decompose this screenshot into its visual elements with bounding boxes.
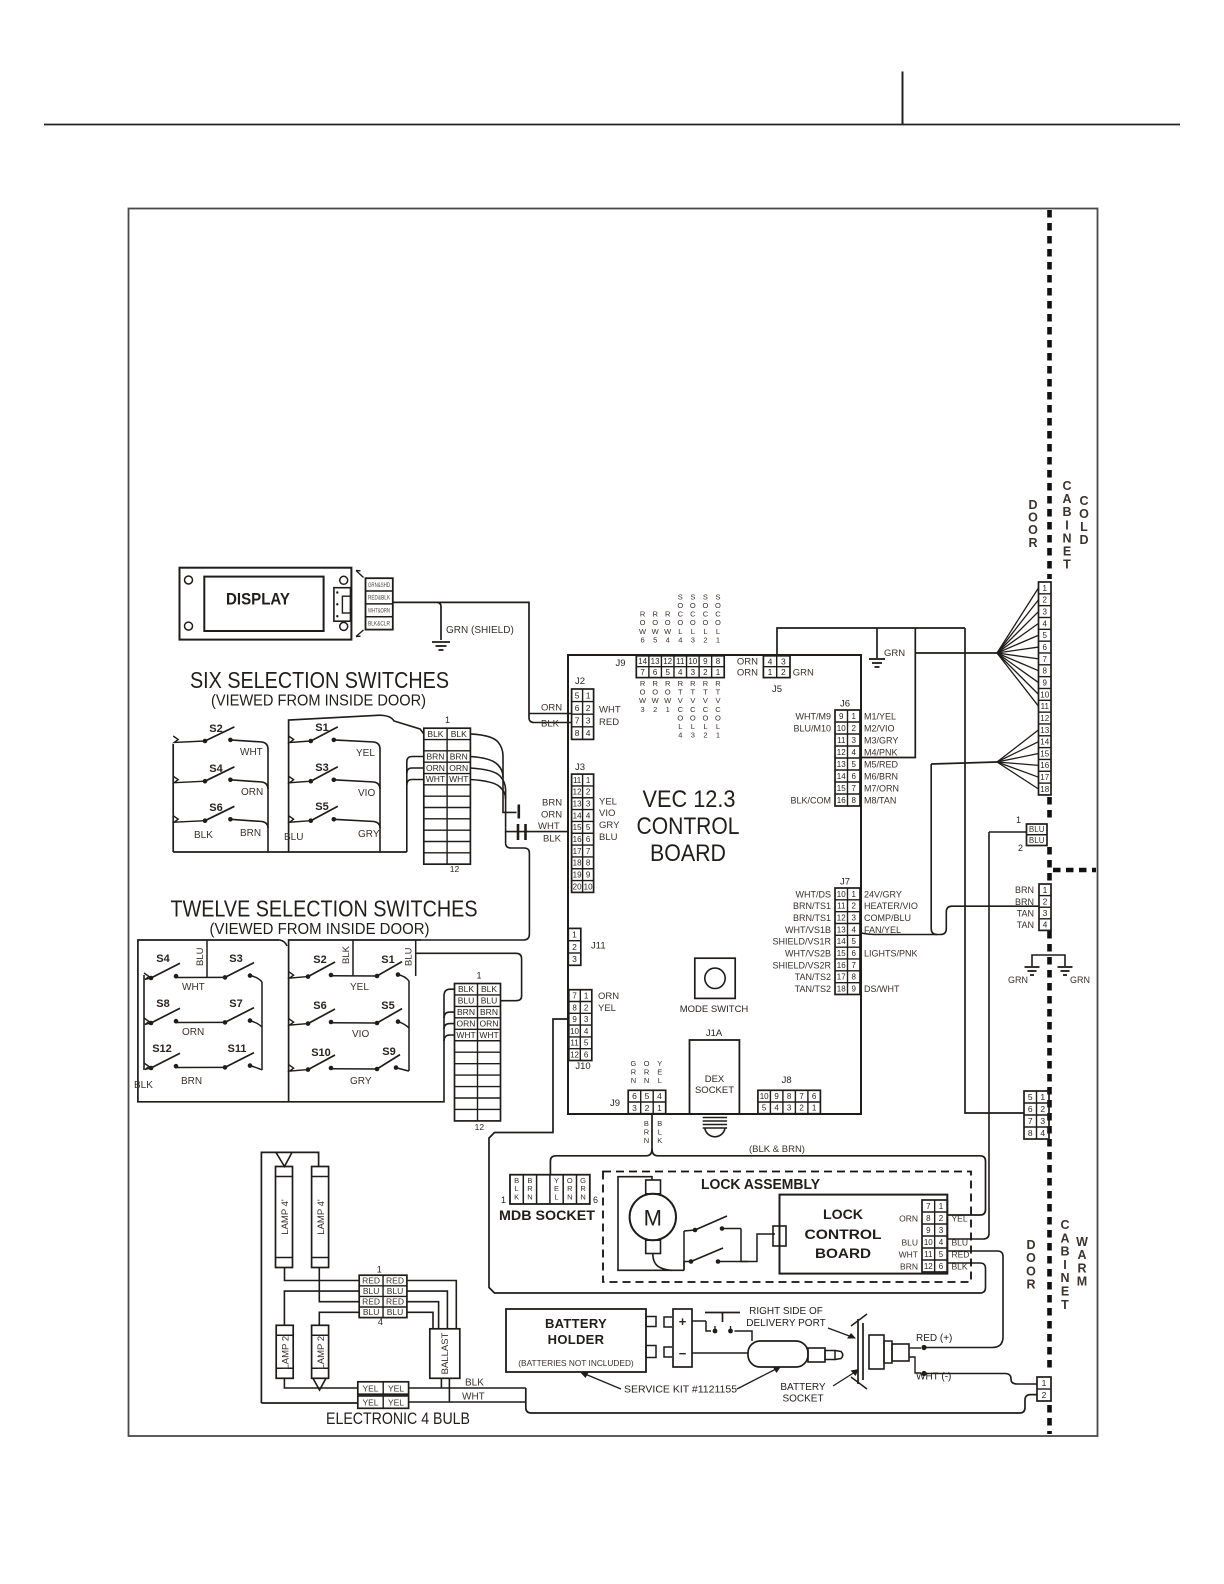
svg-text:1: 1 <box>501 1195 506 1205</box>
svg-text:E: E <box>1063 545 1071 559</box>
svg-text:3: 3 <box>852 736 857 745</box>
wire lamp1 to RED1 <box>285 1268 360 1281</box>
svg-text:L: L <box>658 1076 662 1085</box>
svg-text:2: 2 <box>703 731 707 740</box>
wire to fan-out 1 <box>915 652 997 654</box>
svg-text:1: 1 <box>812 1104 817 1113</box>
switch S5 <box>375 1000 402 1025</box>
svg-text:1: 1 <box>1043 885 1048 895</box>
svg-text:S2: S2 <box>313 954 326 966</box>
svg-text:J9: J9 <box>615 658 625 669</box>
svg-text:14: 14 <box>638 657 647 666</box>
svg-text:WHT: WHT <box>899 1249 918 1259</box>
svg-text:C: C <box>1079 494 1088 508</box>
svg-text:7: 7 <box>640 668 645 677</box>
svg-text:GRY: GRY <box>350 1076 372 1087</box>
svg-text:15: 15 <box>837 784 846 793</box>
svg-text:16: 16 <box>837 961 846 970</box>
svg-text:4: 4 <box>678 731 682 740</box>
splice connector half <box>517 805 520 819</box>
wire BLU2 to ballast <box>407 1291 448 1329</box>
svg-text:WHT: WHT <box>182 982 205 993</box>
svg-text:3: 3 <box>939 1226 944 1235</box>
svg-text:14: 14 <box>837 772 846 781</box>
svg-text:3: 3 <box>586 800 591 809</box>
svg-text:S10: S10 <box>311 1047 331 1059</box>
connector evaporator 2-pin BLU <box>1027 824 1048 846</box>
svg-text:BLU: BLU <box>481 996 498 1006</box>
ground shield <box>432 641 450 643</box>
svg-text:3: 3 <box>691 668 696 677</box>
wire BLU riser to lock board <box>948 832 990 1239</box>
svg-text:4: 4 <box>378 1317 383 1327</box>
display mounting hole <box>185 622 193 630</box>
lock control board <box>780 1195 948 1274</box>
display mounting hole <box>340 622 348 630</box>
wire ballast to BLK run <box>440 1378 442 1388</box>
svg-text:2: 2 <box>572 942 577 952</box>
switch S6 <box>203 802 235 823</box>
terminal WHT dot <box>921 1371 926 1376</box>
svg-text:TAN/TS2: TAN/TS2 <box>795 972 831 982</box>
svg-text:T: T <box>1061 1298 1069 1312</box>
svg-text:RED: RED <box>362 1297 380 1307</box>
svg-text:A: A <box>1077 1248 1086 1262</box>
svg-text:8: 8 <box>926 1214 931 1223</box>
svg-text:M5/RED: M5/RED <box>864 759 899 769</box>
svg-text:12: 12 <box>1040 714 1049 723</box>
svg-text:4: 4 <box>586 811 591 820</box>
svg-text:13: 13 <box>573 800 582 809</box>
svg-text:1: 1 <box>768 667 773 677</box>
svg-text:S12: S12 <box>152 1043 172 1055</box>
switch S5 <box>309 801 338 823</box>
display window <box>204 577 323 631</box>
svg-text:BLU: BLU <box>952 1237 969 1247</box>
wire BLU feed <box>989 831 1027 833</box>
svg-text:A: A <box>1060 1231 1069 1245</box>
svg-text:15: 15 <box>573 823 582 832</box>
svg-text:3: 3 <box>586 716 591 726</box>
svg-text:10: 10 <box>837 724 846 733</box>
svg-text:3: 3 <box>787 1104 792 1113</box>
svg-text:7: 7 <box>852 784 857 793</box>
port jack nut <box>869 1335 884 1369</box>
svg-text:VIO: VIO <box>358 788 375 799</box>
wire GRN ground drop <box>876 628 878 658</box>
wire riser to door harness <box>965 628 1024 1113</box>
wire S2/S4/S6 outputs to bottom bus <box>230 740 268 852</box>
svg-text:15: 15 <box>837 949 846 958</box>
svg-text:2: 2 <box>703 635 707 644</box>
svg-text:WHT: WHT <box>462 1392 485 1403</box>
svg-text:8: 8 <box>575 728 580 738</box>
svg-text:9: 9 <box>586 871 591 880</box>
svg-text:BLK: BLK <box>481 984 497 994</box>
svg-text:BLU: BLU <box>363 1307 380 1317</box>
svg-text:RED: RED <box>386 1297 404 1307</box>
battery socket plug <box>748 1341 808 1367</box>
wire ORN to J2 <box>529 713 571 715</box>
svg-text:J11: J11 <box>591 941 606 952</box>
svg-text:+: + <box>679 1314 687 1329</box>
splice connector pair <box>517 824 520 840</box>
svg-text:GRY: GRY <box>599 820 620 831</box>
svg-text:VEC 12.3: VEC 12.3 <box>643 786 736 813</box>
svg-text:WHT: WHT <box>456 1030 475 1040</box>
lamp LAMP 4' <box>276 1167 293 1268</box>
switch S7 <box>223 998 254 1025</box>
svg-text:E: E <box>1061 1285 1069 1299</box>
svg-text:4: 4 <box>678 635 682 644</box>
svg-text:DELIVERY PORT: DELIVERY PORT <box>746 1318 825 1329</box>
svg-text:6: 6 <box>586 835 591 844</box>
svg-text:BLK&CLR: BLK&CLR <box>368 621 391 627</box>
svg-text:(VIEWED FROM INSIDE DOOR): (VIEWED FROM INSIDE DOOR) <box>210 921 430 938</box>
svg-text:TWELVE SELECTION SWITCHES: TWELVE SELECTION SWITCHES <box>171 896 478 922</box>
svg-text:BLU: BLU <box>458 996 475 1006</box>
svg-text:8: 8 <box>1043 667 1048 676</box>
wire jack to RED terminal <box>909 1347 921 1349</box>
svg-text:6: 6 <box>1028 1104 1033 1114</box>
svg-text:14: 14 <box>573 811 582 820</box>
wire J9 pair to MDB and lock <box>651 1114 653 1149</box>
wire bus stub BLK <box>352 940 354 976</box>
svg-text:5: 5 <box>1043 631 1048 640</box>
svg-text:MDB SOCKET: MDB SOCKET <box>499 1207 595 1223</box>
svg-text:10: 10 <box>688 657 697 666</box>
wire S10-S9 link <box>331 1068 377 1070</box>
svg-text:5: 5 <box>852 937 857 946</box>
svg-text:BRN: BRN <box>181 1076 202 1087</box>
delivery port panel <box>857 1319 859 1384</box>
svg-text:5: 5 <box>1028 1092 1033 1102</box>
wire top feed to strip row 1 <box>380 715 424 734</box>
svg-text:N: N <box>527 1192 532 1201</box>
svg-text:9: 9 <box>926 1226 931 1235</box>
svg-text:S1: S1 <box>315 722 328 734</box>
svg-text:7: 7 <box>572 991 577 1000</box>
svg-text:BLK: BLK <box>134 1080 153 1091</box>
svg-text:6: 6 <box>852 772 857 781</box>
svg-text:S7: S7 <box>229 998 242 1010</box>
svg-text:LOCK: LOCK <box>823 1207 863 1222</box>
svg-text:4: 4 <box>1040 1128 1045 1138</box>
svg-text:LOCK ASSEMBLY: LOCK ASSEMBLY <box>701 1177 820 1193</box>
svg-text:S9: S9 <box>382 1046 395 1058</box>
wire strip exits right rows 1,3 to splice A <box>470 734 503 808</box>
svg-text:GRN (SHIELD): GRN (SHIELD) <box>446 625 514 636</box>
svg-text:LAMP 2': LAMP 2' <box>281 1334 292 1370</box>
svg-text:9: 9 <box>572 1015 577 1024</box>
lamp LAMP 2' <box>312 1325 329 1378</box>
wire S1/S3/S5 outputs to bottom bus <box>334 740 380 852</box>
svg-text:RED&BLK: RED&BLK <box>368 596 390 602</box>
svg-text:3: 3 <box>781 656 786 666</box>
svg-text:8: 8 <box>1028 1128 1033 1138</box>
svg-text:2: 2 <box>1040 1104 1045 1114</box>
wire lamp4 V to yel1 <box>313 1378 326 1390</box>
svg-text:BLK: BLK <box>341 945 352 964</box>
svg-text:BLK: BLK <box>952 1261 968 1271</box>
svg-text:TAN: TAN <box>1017 908 1034 918</box>
svg-text:WHT&ORN: WHT&ORN <box>368 609 390 615</box>
svg-text:T: T <box>1063 558 1071 572</box>
twelve-switch left group frame <box>138 940 421 1102</box>
battery holder tab <box>646 1317 656 1327</box>
svg-text:BLU: BLU <box>363 1286 380 1296</box>
svg-text:17: 17 <box>573 847 582 856</box>
wire fan-out to pins 1-11 <box>997 588 1039 653</box>
wire display cable to control board <box>393 602 529 717</box>
wire right-group riser S3 column <box>261 982 263 1070</box>
svg-text:8: 8 <box>852 796 857 805</box>
twelve-switch left bus <box>143 975 145 1070</box>
svg-text:BLU: BLU <box>599 832 618 843</box>
svg-text:1: 1 <box>666 705 670 714</box>
svg-text:12: 12 <box>663 657 672 666</box>
svg-text:5: 5 <box>575 690 580 700</box>
lock switch a <box>683 1231 685 1270</box>
wire bus taps left trio <box>173 736 205 743</box>
wire yel2 to left loop <box>261 1402 357 1404</box>
wire S2 feed zig <box>289 972 308 979</box>
wire motor group enclosure <box>861 628 915 758</box>
svg-text:8: 8 <box>787 1092 792 1101</box>
svg-text:1: 1 <box>1016 815 1021 825</box>
svg-text:ORN: ORN <box>737 657 758 668</box>
svg-text:5: 5 <box>852 760 857 769</box>
svg-text:LAMP 2': LAMP 2' <box>316 1334 327 1370</box>
svg-text:4: 4 <box>678 668 683 677</box>
svg-text:M: M <box>1077 1275 1087 1289</box>
svg-text:5: 5 <box>939 1250 944 1259</box>
connector cabinet 4-pin BRN/TAN <box>1039 884 1051 930</box>
svg-text:12: 12 <box>837 748 846 757</box>
svg-text:I: I <box>1065 518 1068 532</box>
svg-text:BLU: BLU <box>901 1237 918 1247</box>
svg-text:ORN: ORN <box>241 787 263 798</box>
svg-text:HOLDER: HOLDER <box>548 1332 605 1347</box>
svg-text:14: 14 <box>1040 738 1049 747</box>
svg-text:8: 8 <box>716 657 721 666</box>
svg-text:2: 2 <box>939 1214 944 1223</box>
wire RED1 to ballast <box>407 1281 456 1329</box>
connector lamp yellow pair 2 <box>358 1396 409 1408</box>
lock switch b <box>741 1229 748 1262</box>
svg-text:D: D <box>1026 1238 1035 1252</box>
svg-text:O: O <box>1026 1251 1036 1265</box>
svg-text:24V/GRY: 24V/GRY <box>864 889 902 899</box>
svg-text:BRN/TS1: BRN/TS1 <box>793 913 831 923</box>
svg-text:YEL: YEL <box>362 1383 378 1393</box>
svg-text:2: 2 <box>1042 1390 1047 1400</box>
svg-text:11: 11 <box>837 736 846 745</box>
connector lock board header <box>922 1200 947 1272</box>
svg-text:20: 20 <box>573 882 582 891</box>
terminal RED dot <box>921 1345 926 1350</box>
terminal block pin-4 mark <box>356 630 364 637</box>
svg-text:−: − <box>679 1346 687 1361</box>
svg-text:11: 11 <box>570 1039 579 1048</box>
svg-text:SERVICE KIT #1121155: SERVICE KIT #1121155 <box>624 1384 737 1396</box>
svg-text:WHT/M9: WHT/M9 <box>796 711 832 721</box>
svg-text:16: 16 <box>573 835 582 844</box>
svg-text:K: K <box>657 1136 662 1145</box>
svg-text:GRN: GRN <box>1070 975 1090 985</box>
port jack body <box>892 1344 909 1361</box>
svg-text:MODE SWITCH: MODE SWITCH <box>680 1004 749 1015</box>
svg-text:BRN: BRN <box>1015 897 1034 907</box>
svg-text:BALLAST: BALLAST <box>440 1332 451 1374</box>
svg-text:BLU: BLU <box>284 832 303 843</box>
svg-text:BLK: BLK <box>451 729 467 739</box>
switch S2 <box>306 954 335 979</box>
svg-text:BATTERY: BATTERY <box>780 1382 826 1393</box>
svg-text:BRN/TS1: BRN/TS1 <box>793 901 831 911</box>
wire motor loop <box>618 1177 684 1271</box>
wire J10 pin9 to lower door loop <box>489 1019 980 1293</box>
wire splice A lead <box>503 808 517 812</box>
svg-text:S4: S4 <box>209 763 223 775</box>
connector J10 <box>569 990 592 1061</box>
svg-text:1: 1 <box>377 1265 382 1275</box>
svg-text:C: C <box>1062 479 1071 493</box>
svg-text:ORN: ORN <box>737 667 758 678</box>
svg-text:11: 11 <box>837 902 846 911</box>
svg-text:SHIELD/VS1R: SHIELD/VS1R <box>772 937 831 947</box>
svg-text:J1A: J1A <box>706 1028 723 1039</box>
svg-text:BOARD: BOARD <box>815 1246 871 1261</box>
svg-text:YEL: YEL <box>350 982 369 993</box>
wire S2-S1 link <box>331 975 377 977</box>
display mounting hole <box>340 576 348 584</box>
svg-text:2: 2 <box>1043 896 1048 906</box>
svg-text:J2: J2 <box>575 676 585 687</box>
svg-text:BRN: BRN <box>450 752 468 762</box>
svg-text:2: 2 <box>781 667 786 677</box>
svg-text:WHT: WHT <box>449 774 468 784</box>
svg-text:18: 18 <box>837 984 846 993</box>
switch S12 <box>149 1043 180 1070</box>
svg-text:12: 12 <box>570 1050 579 1059</box>
wire jack to WHT terminal <box>909 1357 921 1373</box>
svg-text:BLK: BLK <box>194 830 213 841</box>
svg-text:7: 7 <box>799 1092 804 1101</box>
svg-text:SOCKET: SOCKET <box>782 1394 823 1405</box>
svg-text:9: 9 <box>1043 678 1048 687</box>
switch S4 <box>203 763 235 784</box>
wire lamp3 to yel1 <box>284 1378 357 1388</box>
svg-text:10: 10 <box>760 1092 769 1101</box>
wire S6-S5 link <box>331 1022 377 1024</box>
svg-text:HEATER/VIO: HEATER/VIO <box>864 901 918 911</box>
svg-text:BLU: BLU <box>387 1286 404 1296</box>
svg-text:ORN: ORN <box>541 703 562 714</box>
svg-text:2: 2 <box>586 788 591 797</box>
svg-text:15: 15 <box>1040 749 1049 758</box>
svg-text:6: 6 <box>1043 643 1048 652</box>
svg-text:1: 1 <box>852 890 857 899</box>
display mounting hole <box>185 576 193 584</box>
svg-text:N: N <box>631 1076 636 1085</box>
svg-text:12: 12 <box>837 913 846 922</box>
svg-text:6: 6 <box>632 1091 637 1101</box>
svg-text:3: 3 <box>632 1103 637 1113</box>
svg-text:11: 11 <box>573 776 582 785</box>
switch S10 <box>306 1047 335 1072</box>
svg-text:4: 4 <box>768 656 773 666</box>
svg-text:BLK: BLK <box>541 719 560 730</box>
wire FAN/YEL run <box>861 906 1039 934</box>
svg-text:2: 2 <box>1018 843 1023 853</box>
svg-text:8: 8 <box>586 859 591 868</box>
svg-text:4: 4 <box>852 925 857 934</box>
svg-text:N: N <box>1062 531 1071 545</box>
wire ballast to WHT run <box>409 1378 450 1402</box>
svg-text:5: 5 <box>762 1104 767 1113</box>
svg-text:7: 7 <box>926 1202 931 1211</box>
wire door 2-pin pin2 loop <box>526 1388 1037 1413</box>
connector twelve-switch terminal strip (12 pos) <box>455 984 501 1121</box>
svg-text:3: 3 <box>641 705 645 714</box>
wire switches to lock board <box>718 1234 775 1262</box>
wire feeds to strip rows 3-5 <box>407 757 424 763</box>
svg-text:I: I <box>1063 1258 1066 1272</box>
svg-text:6: 6 <box>641 635 645 644</box>
svg-text:4: 4 <box>666 635 670 644</box>
battery holder <box>506 1309 646 1372</box>
svg-text:8: 8 <box>852 973 857 982</box>
svg-text:7: 7 <box>586 847 591 856</box>
svg-text:4: 4 <box>852 748 857 757</box>
svg-text:6: 6 <box>584 1050 589 1059</box>
arrow to delivery port <box>828 1328 852 1337</box>
svg-text:M2/VIO: M2/VIO <box>864 723 895 733</box>
delivery port switch <box>705 1312 740 1314</box>
connector J11 <box>568 928 581 965</box>
wire J5 to cabinet harness <box>777 628 965 656</box>
battery B1 <box>673 1309 692 1367</box>
svg-text:YEL: YEL <box>598 1003 616 1014</box>
switch S4 <box>149 953 180 980</box>
svg-text:BLK: BLK <box>458 984 474 994</box>
svg-text:9: 9 <box>774 1092 779 1101</box>
svg-text:ORN: ORN <box>541 810 562 821</box>
svg-text:O: O <box>1026 1264 1036 1278</box>
svg-text:GRN: GRN <box>793 667 814 678</box>
connector MDB socket <box>510 1175 590 1204</box>
svg-text:RED: RED <box>386 1275 404 1285</box>
svg-text:6: 6 <box>852 949 857 958</box>
svg-text:S6: S6 <box>313 1000 326 1012</box>
switch S9 <box>375 1046 400 1071</box>
svg-text:BLU: BLU <box>1029 825 1045 834</box>
svg-text:J5: J5 <box>772 684 782 695</box>
svg-text:BRN: BRN <box>426 752 444 762</box>
svg-text:B: B <box>1060 1245 1069 1259</box>
wire lamp2 to RED3 <box>319 1268 359 1302</box>
svg-text:6: 6 <box>939 1262 944 1271</box>
svg-text:1: 1 <box>586 690 591 700</box>
wire lamp3 to BLU2 <box>284 1291 359 1325</box>
svg-text:13: 13 <box>837 760 846 769</box>
svg-text:R: R <box>1077 1261 1086 1275</box>
svg-text:5: 5 <box>586 823 591 832</box>
switch S11 <box>223 1043 254 1070</box>
svg-text:YEL: YEL <box>388 1383 404 1393</box>
svg-text:12: 12 <box>573 788 582 797</box>
